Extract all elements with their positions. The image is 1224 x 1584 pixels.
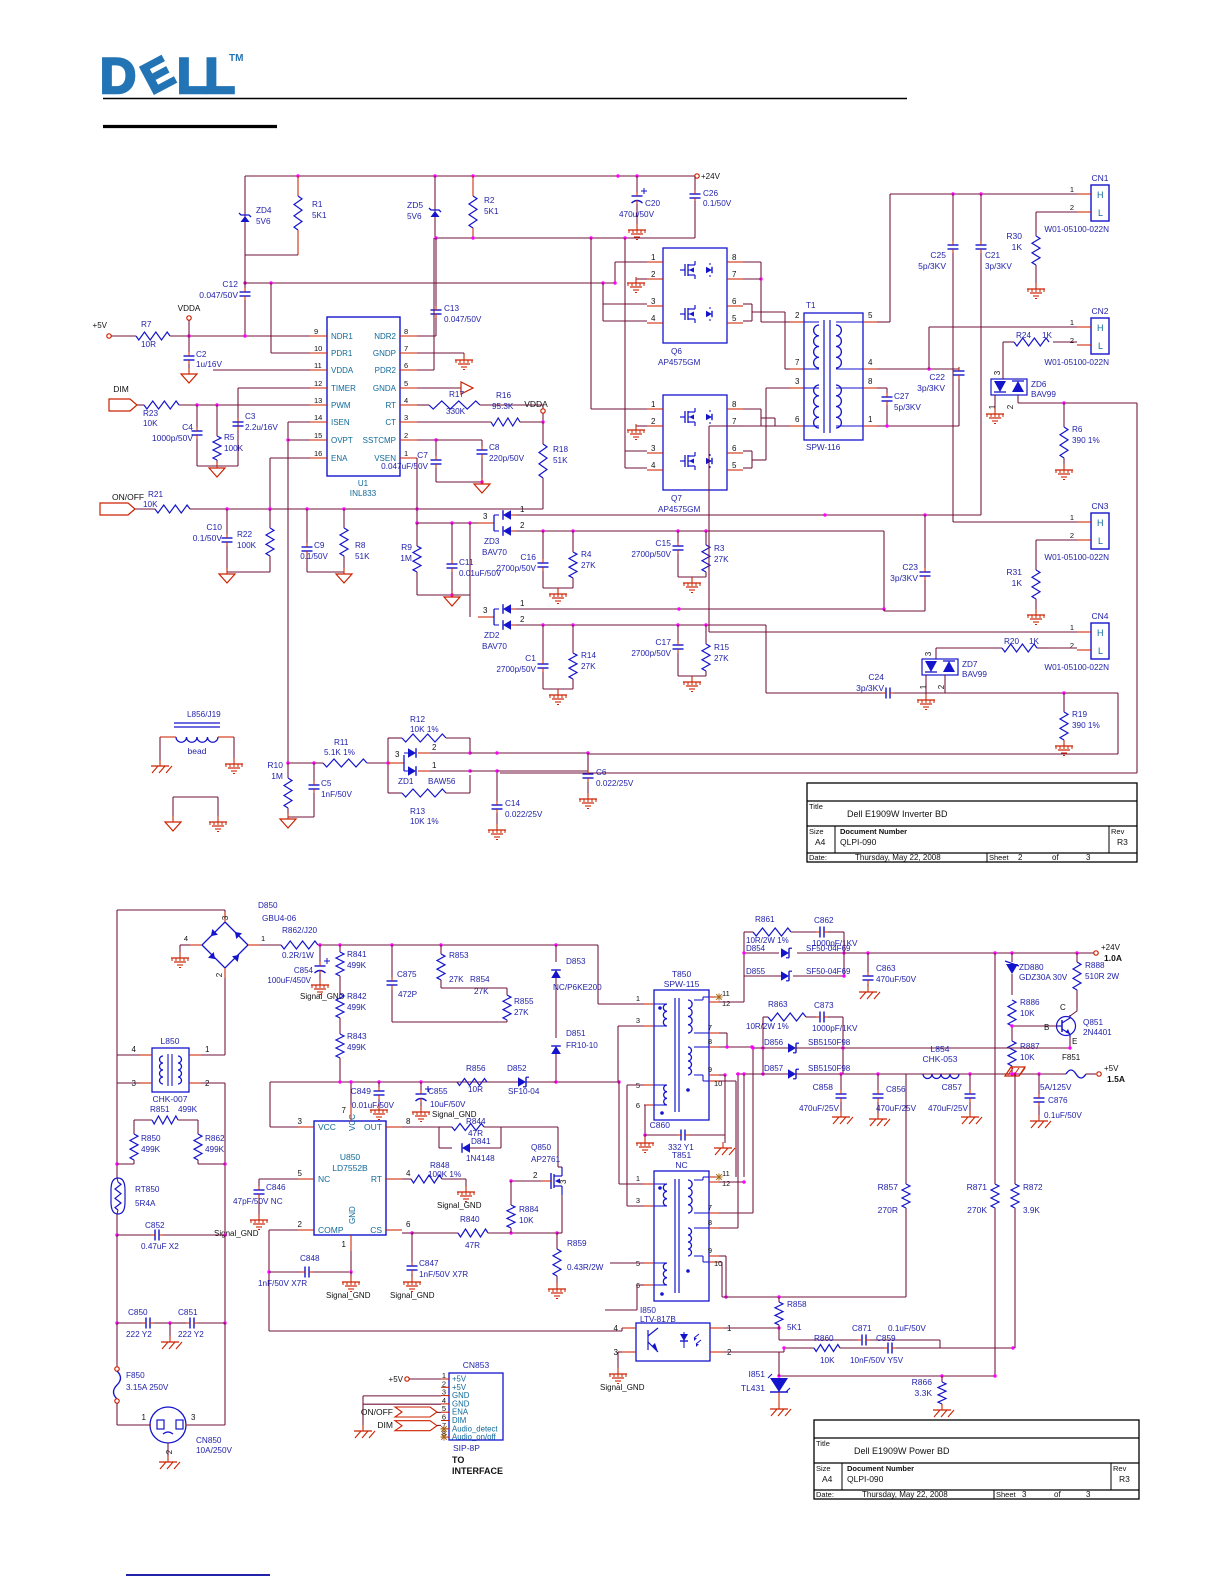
svg-text:2N4401: 2N4401	[1083, 1028, 1112, 1037]
svg-text:10nF/50V Y5V: 10nF/50V Y5V	[850, 1356, 904, 1365]
svg-text:C8: C8	[489, 443, 500, 452]
svg-text:F850: F850	[126, 1371, 145, 1380]
svg-text:SF10-04: SF10-04	[508, 1087, 540, 1096]
svg-text:10K: 10K	[143, 419, 158, 428]
svg-text:27K: 27K	[714, 654, 729, 663]
svg-text:R11: R11	[334, 738, 349, 747]
wire T1 p6	[709, 426, 790, 632]
svg-text:499K: 499K	[347, 1003, 367, 1012]
wire c17r15 bot	[678, 676, 706, 680]
svg-text:+24V: +24V	[701, 172, 721, 181]
wire loop right2	[588, 753, 1118, 755]
svg-text:11: 11	[314, 361, 322, 370]
svg-text:R18: R18	[553, 445, 568, 454]
svg-text:3: 3	[221, 915, 230, 920]
resistor R853	[437, 945, 469, 988]
svg-text:0.43R/2W: 0.43R/2W	[567, 1263, 604, 1272]
svg-text:3p/3KV: 3p/3KV	[985, 262, 1012, 271]
capacitor C14	[492, 797, 543, 828]
wire VDDA pin11	[213, 369, 310, 371]
resistor R1	[294, 176, 327, 255]
svg-text:AP2761: AP2761	[531, 1155, 561, 1164]
svg-text:Signal_GND: Signal_GND	[600, 1383, 645, 1392]
wire t851 p3	[627, 1085, 644, 1206]
svg-text:RT: RT	[371, 1174, 382, 1184]
wire VSEN-down	[415, 509, 418, 525]
capacitor C2	[184, 336, 223, 372]
svg-text:390 1%: 390 1%	[1072, 436, 1100, 445]
svg-text:Document Number: Document Number	[847, 1464, 914, 1473]
svg-text:1nF/50V X7R: 1nF/50V X7R	[419, 1270, 468, 1279]
svg-text:B: B	[1044, 1023, 1049, 1032]
ground Q6pin2	[627, 277, 647, 293]
wire +24V rail	[245, 174, 695, 177]
resistor R13	[388, 789, 470, 826]
wire d856 row	[843, 1046, 1072, 1049]
svg-text:R855: R855	[514, 997, 534, 1006]
svg-text:R5: R5	[224, 433, 235, 442]
ground C876	[1030, 1115, 1051, 1128]
svg-text:CN850: CN850	[196, 1436, 222, 1445]
ground C4R5	[209, 462, 225, 477]
svg-text:Dell E1909W Inverter BD: Dell E1909W Inverter BD	[847, 809, 948, 819]
wire C10R22 bot	[227, 571, 270, 573]
inductor L856/J19	[160, 710, 234, 756]
node VDDA2	[524, 399, 548, 413]
svg-text:GNDA: GNDA	[373, 384, 397, 393]
svg-text:1: 1	[142, 1413, 147, 1422]
svg-text:11: 11	[722, 989, 730, 998]
wire T1 p2	[761, 321, 790, 323]
svg-text:2.2u/16V: 2.2u/16V	[245, 423, 278, 432]
svg-text:8: 8	[868, 377, 873, 386]
svg-text:270R: 270R	[878, 1205, 898, 1215]
svg-text:Document Number: Document Number	[840, 827, 907, 836]
svg-text:499K: 499K	[347, 961, 367, 970]
svg-text:OUT: OUT	[364, 1122, 382, 1132]
svg-text:11: 11	[722, 1169, 730, 1178]
svg-text:R854: R854	[470, 975, 490, 984]
wire R11-ZD1	[367, 762, 388, 764]
svg-text:1: 1	[988, 404, 997, 409]
svg-text:LL: LL	[177, 48, 234, 104]
ground C849	[370, 1104, 388, 1120]
svg-text:W01-05100-022N: W01-05100-022N	[1044, 663, 1109, 672]
svg-text:R888: R888	[1085, 961, 1105, 970]
resistor R848	[402, 1161, 466, 1183]
svg-text:NC: NC	[675, 1160, 687, 1170]
port DIM if	[377, 1420, 441, 1431]
svg-text:ZD2: ZD2	[484, 631, 500, 640]
wire d85x left	[743, 932, 745, 976]
svg-text:E: E	[1072, 1037, 1077, 1046]
svg-text:4: 4	[651, 314, 656, 323]
ground C858	[832, 1111, 853, 1124]
resistor R862b	[194, 1134, 225, 1164]
svg-text:5A/125V: 5A/125V	[1040, 1083, 1072, 1092]
connector CN1	[1044, 173, 1109, 234]
svg-text:7: 7	[732, 417, 737, 426]
wire d857-row2	[736, 1072, 746, 1177]
svg-text:D: D	[100, 48, 136, 104]
svg-text:+5V: +5V	[1104, 1064, 1119, 1073]
svg-text:C863: C863	[876, 964, 896, 973]
resistor R17	[417, 390, 480, 409]
svg-text:0.1uF/50V: 0.1uF/50V	[1044, 1111, 1082, 1120]
svg-text:D852: D852	[507, 1064, 527, 1073]
svg-text:2: 2	[651, 270, 656, 279]
svg-text:SIP-8P: SIP-8P	[453, 1443, 480, 1453]
capacitor C858	[799, 1074, 847, 1115]
svg-text:0.022/25V: 0.022/25V	[596, 779, 634, 788]
wire vcc row	[270, 1080, 621, 1083]
svg-text:D855: D855	[746, 967, 766, 976]
svg-text:SF50-04F69: SF50-04F69	[806, 967, 851, 976]
capacitor C876	[1034, 1074, 1083, 1120]
svg-text:10: 10	[714, 1079, 722, 1088]
svg-text:ZD880: ZD880	[1019, 963, 1044, 972]
svg-text:1: 1	[520, 505, 525, 514]
svg-text:ZD6: ZD6	[1031, 380, 1047, 389]
svg-text:R844: R844	[466, 1117, 486, 1126]
ground TL431	[770, 1403, 791, 1416]
wire +5 row	[839, 1072, 1066, 1075]
wire c862 right	[843, 932, 845, 976]
svg-text:R863: R863	[768, 1000, 788, 1009]
resistor R20	[1002, 637, 1049, 652]
wire PWM	[179, 403, 310, 406]
svg-text:2: 2	[651, 417, 656, 426]
wire gate	[501, 1127, 558, 1167]
svg-text:R848: R848	[430, 1161, 450, 1170]
svg-text:Rev: Rev	[1113, 1464, 1127, 1473]
ground pairR	[209, 816, 227, 832]
svg-text:95.3K: 95.3K	[492, 402, 514, 411]
optocoupler I850 LTV-817B	[614, 1306, 732, 1361]
svg-text:10K 1%: 10K 1%	[410, 725, 439, 734]
svg-text:2: 2	[1070, 641, 1074, 650]
svg-text:R842: R842	[347, 992, 367, 1001]
wire CN2 p2	[1053, 341, 1077, 343]
svg-text:Title: Title	[816, 1439, 830, 1448]
wire t850 p1 feed	[598, 945, 644, 1004]
wire t850 p6	[643, 1105, 646, 1137]
svg-text:3: 3	[993, 370, 1002, 375]
svg-text:L850: L850	[161, 1036, 180, 1046]
svg-text:DIM: DIM	[113, 384, 129, 394]
wire row595	[417, 593, 470, 596]
label R17v	[446, 407, 466, 416]
svg-text:R2: R2	[484, 196, 495, 205]
wire r872 top	[1014, 1074, 1016, 1184]
wire zd2 p1 row	[516, 607, 925, 611]
svg-text:Audio_on/off: Audio_on/off	[452, 1433, 496, 1442]
label R854	[470, 975, 490, 996]
svg-text:I851: I851	[748, 1369, 765, 1379]
svg-text:2: 2	[1070, 203, 1074, 212]
resistor R31	[1006, 540, 1040, 613]
svg-text:470uF/25V: 470uF/25V	[876, 1104, 917, 1113]
ground C14	[488, 824, 506, 840]
port DIM	[109, 399, 137, 411]
resistor R6	[1060, 403, 1100, 468]
wire C7C8 bot	[436, 480, 484, 483]
svg-text:499K: 499K	[347, 1043, 367, 1052]
wire SSTCMP	[417, 438, 438, 456]
svg-text:R884: R884	[519, 1205, 539, 1214]
svg-text:100K: 100K	[224, 444, 244, 453]
capacitor C13	[417, 238, 482, 336]
svg-text:A4: A4	[815, 837, 826, 847]
svg-text:5K1: 5K1	[484, 207, 499, 216]
wire f850 top	[116, 1323, 118, 1367]
svg-text:0.2R/1W: 0.2R/1W	[282, 951, 314, 960]
fuse F851	[1040, 1053, 1096, 1092]
svg-text:C11: C11	[459, 558, 474, 567]
svg-text:C859: C859	[876, 1334, 896, 1343]
svg-text:SPW-115: SPW-115	[664, 979, 700, 989]
wire t850 p10	[719, 1081, 736, 1177]
svg-text:C23: C23	[902, 562, 918, 572]
svg-text:330K: 330K	[446, 407, 466, 416]
svg-text:NC/P6KE200: NC/P6KE200	[553, 983, 602, 992]
ground C860 R	[714, 1135, 735, 1155]
svg-text:1: 1	[342, 1240, 347, 1249]
capacitor C3	[233, 412, 279, 432]
resistor R7	[111, 320, 170, 340]
wire rt850	[117, 1178, 118, 1214]
svg-text:NDR1: NDR1	[331, 332, 353, 341]
svg-text:7: 7	[732, 270, 737, 279]
svg-text:2: 2	[520, 521, 525, 530]
ground C863	[859, 986, 880, 999]
resistor R16	[491, 391, 543, 426]
svg-text:W01-05100-022N: W01-05100-022N	[1044, 553, 1109, 562]
capacitor C21	[976, 194, 1013, 515]
svg-text:3: 3	[924, 651, 933, 656]
svg-text:OVPT: OVPT	[331, 436, 353, 445]
svg-text:R16: R16	[496, 391, 511, 400]
wire prim rail	[318, 943, 598, 946]
svg-text:2700p/50V: 2700p/50V	[631, 550, 671, 559]
svg-text:3.3K: 3.3K	[915, 1388, 933, 1398]
wire zd3p2 drop	[883, 531, 885, 611]
capacitor C854	[267, 945, 330, 985]
ground U850 gnd	[326, 1276, 371, 1300]
ground opto signal	[600, 1368, 645, 1392]
wire cs	[402, 1231, 414, 1234]
ground y-caps	[161, 1323, 182, 1349]
diode D850 GBU4-06 bridge	[184, 901, 297, 978]
wire CN3 p2	[1036, 539, 1077, 541]
svg-text:0.047/50V: 0.047/50V	[199, 290, 238, 300]
svg-text:R862: R862	[205, 1134, 225, 1143]
resistor R4	[569, 531, 596, 588]
wire q34-feed	[603, 283, 647, 321]
ground GNDP	[417, 353, 473, 370]
svg-text:VCC: VCC	[348, 1114, 357, 1131]
resistor R861	[744, 915, 791, 945]
svg-text:0.1/50V: 0.1/50V	[703, 199, 732, 208]
ground c1r14	[549, 689, 567, 705]
ground C7C8	[474, 478, 490, 493]
svg-text:H: H	[1097, 190, 1104, 200]
svg-text:Q6: Q6	[671, 347, 682, 356]
svg-text:6: 6	[406, 1220, 411, 1229]
svg-text:4: 4	[132, 1045, 137, 1054]
capacitor C4	[152, 405, 203, 466]
wire PDR2	[417, 238, 434, 370]
connector CN2	[1044, 306, 1109, 367]
capacitor C7	[381, 450, 441, 482]
svg-text:PDR1: PDR1	[331, 349, 353, 358]
resistor R21	[135, 490, 190, 513]
capacitor C23	[890, 515, 930, 611]
resistor R857	[878, 1182, 910, 1297]
diode ZD1 BAW56	[388, 743, 456, 786]
svg-text:499K: 499K	[178, 1105, 198, 1114]
arrow GNDA	[417, 382, 473, 394]
wire C9R8 bot	[307, 571, 344, 573]
svg-text:8: 8	[732, 253, 737, 262]
svg-text:5K1: 5K1	[312, 211, 327, 220]
svg-text:8: 8	[708, 1218, 712, 1227]
capacitor C850	[117, 1308, 170, 1339]
capacitor C856	[873, 1074, 917, 1117]
resistor R844	[439, 1117, 501, 1131]
resistor R24	[1003, 331, 1053, 346]
svg-text:R14: R14	[581, 651, 596, 660]
svg-text:4: 4	[184, 934, 188, 943]
x-nc CN853 p7	[440, 1425, 447, 1432]
svg-text:1.0A: 1.0A	[1104, 953, 1122, 963]
transistor Q7 AP4575GM	[647, 395, 743, 514]
svg-text:SB5150F98: SB5150F98	[808, 1064, 851, 1073]
label R844v	[468, 1129, 483, 1138]
svg-text:R872: R872	[1023, 1183, 1043, 1192]
zener ZD5	[407, 176, 441, 238]
svg-text:390 1%: 390 1%	[1072, 721, 1100, 730]
svg-text:Size: Size	[816, 1464, 831, 1473]
svg-text:BAV99: BAV99	[1031, 390, 1056, 399]
svg-text:10K 1%: 10K 1%	[410, 817, 439, 826]
capacitor C860	[645, 1075, 725, 1152]
resistor R15	[702, 625, 729, 676]
resistor R872	[1011, 1183, 1043, 1348]
svg-text:ZD4: ZD4	[256, 206, 272, 215]
wire ZD6 p3	[1002, 342, 1004, 379]
capacitor C1	[496, 625, 548, 689]
wire t851 p1 feed	[619, 1082, 644, 1184]
svg-text:15: 15	[314, 431, 322, 440]
svg-text:W01-05100-022N: W01-05100-022N	[1044, 358, 1109, 367]
svg-text:C856: C856	[886, 1085, 906, 1094]
transistor Q850 AP2761	[541, 1167, 562, 1195]
svg-text:8: 8	[732, 400, 737, 409]
diode ZD3 BAV70	[478, 505, 525, 557]
wire Q7 g2	[625, 238, 647, 468]
svg-text:8: 8	[404, 327, 408, 336]
svg-text:Signal_GND: Signal_GND	[214, 1229, 259, 1238]
svg-text:CT: CT	[385, 418, 396, 427]
svg-text:0.47uF X2: 0.47uF X2	[141, 1242, 179, 1251]
fuse F850	[114, 1367, 169, 1403]
svg-text:C854: C854	[294, 966, 314, 975]
svg-text:47R: 47R	[465, 1241, 480, 1250]
svg-text:R3: R3	[1117, 837, 1128, 847]
svg-text:3: 3	[636, 1196, 640, 1205]
svg-text:13: 13	[314, 396, 322, 405]
svg-text:ON/OFF: ON/OFF	[112, 492, 144, 502]
ground C854 signal	[300, 979, 345, 1001]
node +5V cn853	[389, 1375, 441, 1384]
svg-text:3: 3	[1086, 1490, 1091, 1499]
wire cn850 p3	[187, 1323, 225, 1425]
svg-text:10K: 10K	[143, 500, 158, 509]
capacitor C871	[779, 1324, 940, 1346]
svg-text:NC: NC	[318, 1174, 330, 1184]
diode D853	[551, 945, 602, 1038]
svg-text:7: 7	[708, 1203, 712, 1212]
svg-text:D841: D841	[471, 1137, 491, 1146]
wire t850 p7	[719, 1033, 727, 1047]
svg-text:D853: D853	[566, 957, 586, 966]
svg-text:R843: R843	[347, 1032, 367, 1041]
wire out row	[402, 1126, 439, 1128]
svg-text:470uF/50V: 470uF/50V	[876, 975, 917, 984]
svg-text:VDDA: VDDA	[524, 399, 548, 409]
svg-text:4: 4	[868, 358, 873, 367]
label Q851	[1044, 1003, 1112, 1046]
svg-text:of: of	[1054, 1490, 1061, 1499]
svg-text:INL833: INL833	[350, 489, 377, 498]
svg-text:VCC: VCC	[318, 1122, 336, 1132]
svg-text:2: 2	[520, 615, 525, 624]
svg-text:QLPI-090: QLPI-090	[840, 837, 877, 847]
svg-text:CS: CS	[370, 1225, 382, 1235]
ground c17r15	[683, 676, 701, 692]
svg-text:CN853: CN853	[463, 1360, 490, 1370]
ground C847	[390, 1276, 435, 1300]
ground C9R8	[336, 568, 352, 583]
ground Q7pin2	[627, 424, 647, 440]
svg-text:2: 2	[795, 311, 800, 320]
inductor L854	[920, 1044, 959, 1079]
ground R19	[1055, 740, 1073, 756]
wire bead right	[233, 737, 235, 762]
resistor R8	[340, 509, 370, 572]
svg-text:R19: R19	[1072, 710, 1087, 719]
svg-text:2: 2	[1006, 404, 1015, 409]
wire zd3 p1 row	[516, 513, 981, 516]
svg-text:F851: F851	[1062, 1053, 1081, 1062]
ground c16r4	[549, 588, 567, 604]
svg-text:Signal_GND: Signal_GND	[326, 1291, 371, 1300]
svg-text:A4: A4	[822, 1474, 833, 1484]
wire c6-row	[587, 753, 589, 754]
wire r10c5 bot	[288, 816, 314, 818]
svg-text:1M: 1M	[271, 771, 283, 781]
svg-text:5V6: 5V6	[407, 212, 422, 221]
ground R30	[1027, 283, 1045, 299]
wire ZD6 p1	[994, 395, 996, 412]
node +5V out	[1097, 1064, 1125, 1084]
svg-text:R859: R859	[567, 1239, 587, 1248]
svg-text:270K: 270K	[967, 1205, 987, 1215]
svg-text:R3: R3	[1119, 1474, 1130, 1484]
wire fb right	[940, 1340, 1015, 1350]
ground C10R22	[219, 568, 235, 583]
